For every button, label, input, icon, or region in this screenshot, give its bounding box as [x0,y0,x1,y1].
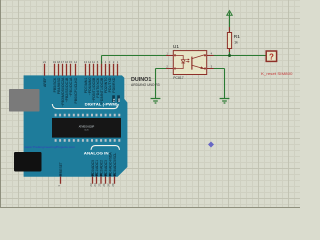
svg-text:PD0/RXD: PD0/RXD [112,77,116,93]
svg-text:PB0/ICP1/CLKO: PB0/ICP1/CLKO [74,77,78,103]
svg-text:R1: R1 [234,34,240,40]
svg-text:ANALOG IN: ANALOG IN [84,151,109,155]
svg-text:21: 21 [43,60,47,64]
svg-text:K_reset SIM800: K_reset SIM800 [261,71,293,76]
svg-text:ARDUINO UNO R3: ARDUINO UNO R3 [131,83,160,87]
svg-text:PC3/ADC3: PC3/ADC3 [104,160,108,176]
svg-text:ATMEGA328P: ATMEGA328P [79,125,95,128]
svg-text:PC817: PC817 [173,76,183,80]
svg-text:15: 15 [69,60,73,64]
svg-text:PC4/ADC4/SDA: PC4/ADC4/SDA [109,152,113,177]
svg-text:28: 28 [111,183,115,187]
svg-text:PC1/ADC1: PC1/ADC1 [95,160,99,176]
svg-text:AREF: AREF [43,78,47,87]
svg-text:DIGITAL (-PWM): DIGITAL (-PWM) [85,103,119,107]
svg-text:27: 27 [106,183,110,187]
svg-text:DUINO1: DUINO1 [131,77,151,83]
svg-text:1k: 1k [234,41,238,45]
svg-text:U1: U1 [173,44,179,50]
svg-text:11: 11 [92,60,95,64]
svg-text:24: 24 [93,183,97,187]
svg-text:26: 26 [102,183,106,187]
svg-text:25: 25 [97,183,101,187]
svg-text:12: 12 [88,60,92,64]
svg-text:RESET: RESET [59,162,63,173]
svg-text:RX: RX [117,98,121,102]
svg-text:14: 14 [74,60,78,64]
svg-text:www.TheEngineeringProjects.com: www.TheEngineeringProjects.com [25,145,76,149]
svg-text:TX: TX [112,98,116,102]
svg-text:PC2/ADC2: PC2/ADC2 [100,160,104,176]
svg-text:PC5/ADC5/SCL: PC5/ADC5/SCL [113,153,117,177]
svg-text:~PB1/OC1A: ~PB1/OC1A [69,77,73,97]
svg-text:?: ? [269,53,274,62]
